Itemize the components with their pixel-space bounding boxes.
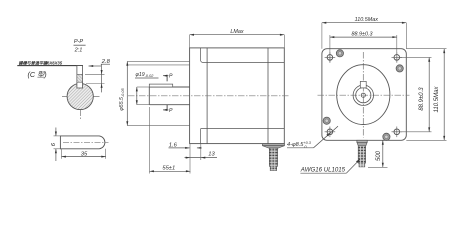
dim 88.9±0.3 (right side, vertical) xyxy=(399,57,432,131)
dim 2.8 xyxy=(85,59,111,93)
label 4-phi8.5 +0.3/0 with leader xyxy=(287,126,338,149)
dim phi55.5 (pilot) extension lines xyxy=(127,60,189,62)
section label P-P 2:1 xyxy=(74,39,86,53)
shaft top line xyxy=(149,86,189,88)
mounting hole TR xyxy=(392,52,403,63)
svg-text:6: 6 xyxy=(51,142,57,146)
corner tangent top horizontal xyxy=(203,62,284,64)
dim 88.9±0.3 (top) xyxy=(330,31,397,62)
svg-text:φ55.5-0.05: φ55.5-0.05 xyxy=(119,88,125,111)
horizontal centerline through shaft/body xyxy=(128,95,290,97)
dim phi19 xyxy=(135,72,159,105)
dim phi55.5 line and text xyxy=(119,61,129,125)
extension verticals below body xyxy=(149,107,151,174)
dim 35 (key length) xyxy=(62,149,106,159)
key spec label (Chinese) xyxy=(17,61,83,79)
cover screw left xyxy=(323,117,330,124)
dim 13 (flange thickness) xyxy=(185,151,218,158)
svg-text:55±1: 55±1 xyxy=(162,166,175,172)
mounting hole BR xyxy=(392,127,403,138)
motor body circle (ellipse) xyxy=(337,65,390,125)
shaft end face xyxy=(148,87,150,105)
svg-text:88.9±0.3: 88.9±0.3 xyxy=(352,31,373,37)
dim 6 (key height) xyxy=(51,128,61,162)
dim 500 (wire length) xyxy=(368,140,388,167)
svg-text:500: 500 xyxy=(376,150,382,161)
key on shaft xyxy=(149,84,172,87)
keyway slot with key xyxy=(77,66,83,88)
svg-text:键槽与普通平键6X6X35: 键槽与普通平键6X6X35 xyxy=(19,61,63,66)
section marker P (bottom) xyxy=(163,105,173,114)
pilot boss circle phi55.5 xyxy=(353,85,373,105)
motor body outline xyxy=(190,48,285,144)
mounting hole BL xyxy=(325,127,336,138)
right cable gland xyxy=(357,140,367,167)
svg-text:(C 型): (C 型) xyxy=(28,70,47,79)
svg-text:13: 13 xyxy=(208,151,215,157)
shaft circle phi19 xyxy=(356,88,371,103)
mounting hole TL xyxy=(325,52,336,63)
dim 1.6 (boss protrusion) xyxy=(169,142,202,149)
dim L Max xyxy=(190,29,285,48)
svg-text:AWG16 UL1015: AWG16 UL1015 xyxy=(300,166,346,173)
svg-text:1.6: 1.6 xyxy=(169,142,178,148)
svg-text:2:1: 2:1 xyxy=(74,48,83,54)
cover screw top xyxy=(336,50,343,57)
shaft bottom line xyxy=(149,104,189,106)
cover screw right xyxy=(396,65,403,72)
middle cable gland xyxy=(263,144,285,171)
key side view xyxy=(60,136,108,149)
rear cover seam xyxy=(267,48,269,144)
svg-text:88.9±0.3: 88.9±0.3 xyxy=(419,87,425,111)
section marker P (top) xyxy=(163,73,173,81)
centerline horizontal (section) xyxy=(62,96,100,98)
svg-text:LMax: LMax xyxy=(230,29,243,35)
centerline vertical (section) xyxy=(80,79,82,120)
corner tangent bottom horizontal xyxy=(201,128,285,130)
svg-text:P: P xyxy=(169,73,173,79)
shaft section circle (hatched) xyxy=(67,83,93,109)
center hole xyxy=(361,93,365,97)
corner tangent short verticals (top) xyxy=(201,48,204,63)
svg-text:110.5Max: 110.5Max xyxy=(355,17,379,23)
dim 55±1 (shaft length) xyxy=(150,166,191,173)
vertical centerline xyxy=(362,52,364,138)
dim 110.5Max (top) xyxy=(322,17,406,49)
svg-text:P: P xyxy=(169,108,173,114)
svg-text:110.5Max: 110.5Max xyxy=(434,86,440,113)
svg-text:P-P: P-P xyxy=(74,39,84,45)
mounting plate xyxy=(322,49,406,141)
horizontal centerline xyxy=(318,94,410,96)
corner tangent short verticals (bottom) xyxy=(200,129,202,144)
cover screw bottom xyxy=(383,133,390,140)
flange rear vertical xyxy=(206,48,208,144)
label AWG16 UL1015 with leader xyxy=(300,159,361,173)
dim 110.5Max (right side, vertical) xyxy=(406,49,446,141)
keyway on shaft (front) xyxy=(360,81,366,88)
svg-text:φ19-0.02: φ19-0.02 xyxy=(136,72,155,78)
